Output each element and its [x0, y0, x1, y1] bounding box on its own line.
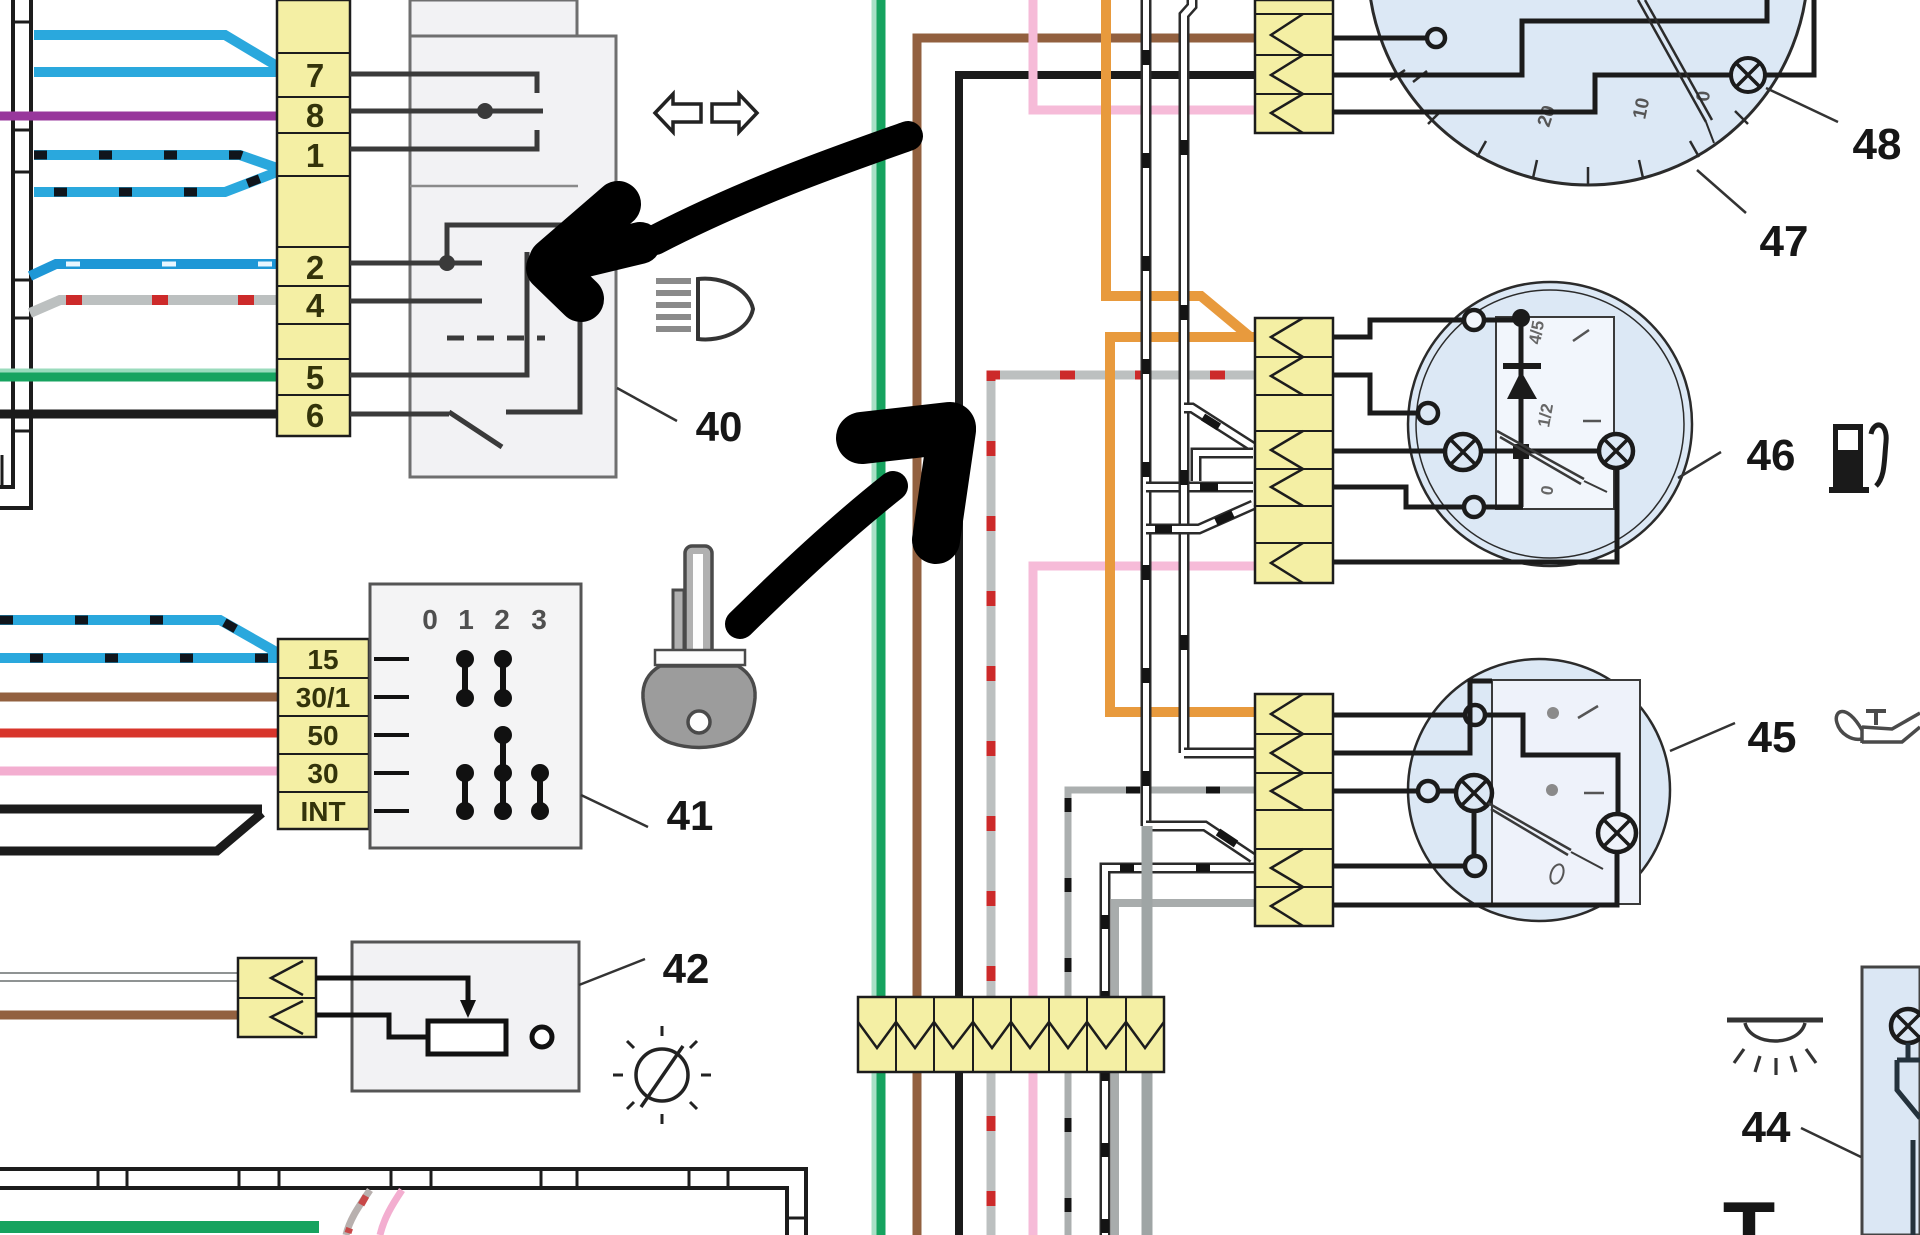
wire brown vertical with top branch to X48 — [917, 38, 1255, 1235]
svg-text:42: 42 — [663, 945, 710, 992]
svg-text:46: 46 — [1747, 431, 1796, 480]
hand-drawn arrow 1 pointing at switch 40 — [549, 136, 908, 299]
svg-text:5: 5 — [306, 359, 324, 396]
wire purple into pin 8 — [0, 112, 277, 121]
wire orange upper run into X46 — [1106, 0, 1249, 336]
leader line 46 — [1678, 452, 1721, 478]
wire pink curved stub below loom — [380, 1190, 402, 1235]
svg-text:4: 4 — [306, 287, 325, 324]
leader line 45 — [1670, 723, 1735, 751]
gauge 46 fuel gauge — [1408, 282, 1692, 566]
leader line 48 — [1766, 88, 1838, 122]
icon headlight low beam — [656, 278, 753, 339]
svg-text:INT: INT — [300, 796, 345, 827]
connector X46 — [1255, 318, 1333, 583]
wire W2 diagonal branch into X46 pin4 — [1184, 408, 1253, 447]
rheostat 42 terminal — [532, 1027, 552, 1047]
unit 44 internal contact — [1897, 1043, 1920, 1235]
rheostat 42 wiper wire with arrow — [316, 978, 476, 1018]
wire black vertical with top branch to X48 — [959, 75, 1255, 1235]
switch 40 contact 5 — [350, 252, 527, 375]
svg-text:41: 41 — [667, 792, 714, 839]
gauge 45 lamp circuit from X45 pin3 — [1333, 775, 1492, 856]
gauge 47/48 speedometer dial — [1368, 0, 1808, 185]
svg-text:0: 0 — [422, 604, 438, 635]
icon fuel pump — [1829, 424, 1886, 493]
wire W1 continuation gray below 826 — [1142, 826, 1153, 1235]
svg-text:2: 2 — [494, 604, 510, 635]
wire cyan-black-dash pair into pin 1 — [34, 155, 277, 192]
switch unit 40 housing — [410, 0, 616, 477]
switch 40 contact 1 — [350, 130, 537, 149]
gauge 45 needle — [1488, 803, 1603, 869]
connector X1 (pins 7 8 1 2 4 5 6) — [277, 0, 350, 436]
lamp in gauge 46 left — [1333, 434, 1599, 470]
svg-text:7: 7 — [306, 57, 324, 94]
ignition switch 41 contacts — [457, 651, 549, 820]
wire outlined W1 vertical — [1141, 0, 1152, 826]
svg-text:15: 15 — [307, 644, 338, 675]
leader line 42 — [579, 959, 645, 985]
ignition switch 41 box — [370, 584, 581, 848]
svg-text:45: 45 — [1748, 713, 1797, 762]
switch 40 contact 6 with lever — [350, 412, 502, 447]
wire outlined W2 vertical — [1184, 0, 1192, 753]
wire W1 branch into X46 pin5 — [1146, 482, 1253, 493]
gauge 45 bottom terminal from X45 pin5 — [1333, 856, 1485, 876]
svg-text:10: 10 — [1629, 96, 1654, 121]
wire cyan pair into pin 7 — [34, 35, 277, 72]
ignition switch 41 pin stubs — [374, 659, 409, 811]
rheostat 42 resistor element — [428, 1021, 506, 1054]
wire loom ladder left edge — [0, 0, 31, 508]
wire black pair into INT — [0, 809, 262, 851]
leader line 44 — [1801, 1128, 1861, 1157]
leader line 41 — [581, 795, 648, 827]
icon panel light dimmer — [613, 1026, 711, 1124]
gauge 45 scale marks — [1548, 706, 1604, 885]
svg-text:T: T — [1723, 1185, 1776, 1235]
wire W2 branch into X45 pin2 — [1184, 748, 1255, 759]
wire gray black-dash to X45 pin3 — [1068, 790, 1255, 1235]
gauge 45 ground from X45 pin6 — [1333, 852, 1617, 905]
svg-text:30: 30 — [307, 758, 338, 789]
leader line 47 — [1697, 170, 1746, 213]
svg-text:48: 48 — [1853, 120, 1902, 169]
gauge 46 scale marks — [1525, 319, 1557, 497]
connector X2 ignition (15 30/1 50 30 INT) — [278, 639, 369, 829]
gauge 46 lamp feed from X46 pin7 — [1333, 466, 1617, 562]
wire pink lower segment to X46 — [1033, 566, 1255, 1235]
icon interior light — [1727, 1020, 1823, 1075]
hand-drawn arrow 2 pointing at gray red-dash wire — [740, 428, 952, 624]
gauge 47 needle — [1638, 0, 1714, 143]
gauge 47 internal circuit from X48 pin2 — [1334, 0, 1767, 75]
gauge 46 sender from X46 pin2 — [1333, 375, 1438, 423]
svg-text:1: 1 — [458, 604, 474, 635]
switch 40 contact 4 — [350, 299, 482, 304]
lamp in gauge 46 right — [1599, 434, 1633, 468]
wire thin white into rheostat connector — [0, 973, 238, 981]
gauge 46 bottom terminal from X46 pin5 — [1333, 487, 1523, 517]
unit 44 box — [1862, 967, 1920, 1235]
icon ignition key — [643, 546, 755, 748]
wire green bottom stub — [0, 1221, 319, 1233]
svg-text:40: 40 — [696, 403, 743, 450]
diode VD in gauge 46 — [1503, 318, 1541, 507]
wire outlined lower fork into X46 pin6 — [1146, 505, 1253, 529]
svg-text:47: 47 — [1760, 217, 1809, 266]
gauge 46 feed from X46 pin1 — [1333, 309, 1530, 337]
wire brown into 30/1 — [0, 693, 278, 702]
wire loom ladder bottom — [0, 1169, 806, 1235]
lamp in unit 44 — [1891, 1009, 1920, 1043]
gauge 45 oil pressure gauge — [1408, 659, 1670, 921]
switch 40 contact 2 with junction — [350, 225, 580, 412]
wire pink into 30 — [0, 767, 278, 776]
svg-text:50: 50 — [307, 720, 338, 751]
svg-text:1: 1 — [306, 137, 324, 174]
rheostat 42 box — [352, 942, 579, 1091]
switch 40 contact 7 — [350, 74, 537, 93]
wire outlined short into X46 pin4b — [1196, 453, 1253, 481]
wire gray-red curved stub below loom — [346, 1190, 370, 1235]
connector X48 — [1255, 0, 1333, 133]
switch 40 mechanical link dashed — [447, 336, 545, 341]
svg-text:2: 2 — [306, 249, 324, 286]
wire blue white-dash into pin 2 — [30, 264, 277, 276]
icon turn signals — [655, 94, 757, 132]
svg-text:6: 6 — [306, 397, 324, 434]
wire black into pin 6 — [0, 410, 277, 419]
connector X45 — [1255, 694, 1333, 926]
wire brown into rheostat connector — [0, 1011, 238, 1020]
gauge 45 feed from X45 pin1 — [1333, 705, 1618, 814]
ignition switch position header 0 1 2 3 — [422, 604, 547, 635]
svg-text:4/5: 4/5 — [1525, 319, 1548, 346]
svg-text:3: 3 — [531, 604, 547, 635]
wire gray to X45 pin6 — [1115, 903, 1255, 1235]
gauge 46 needle — [1497, 431, 1607, 492]
wire green vertical — [874, 0, 881, 1235]
connector X3 rheostat — [238, 958, 316, 1037]
wire gray red-dash vertical with branch to X46 — [991, 375, 1255, 1235]
wire red into 50 — [0, 729, 278, 738]
gauge 47 internal circuit from X48 pin1 — [1334, 29, 1445, 47]
wire cyan-dash pair into ignition 15 — [0, 620, 278, 658]
svg-text:44: 44 — [1742, 1103, 1791, 1152]
svg-text:30/1: 30/1 — [296, 682, 351, 713]
svg-text:1/2: 1/2 — [1534, 402, 1557, 429]
switch 40 contact 8 with movable contact dot — [350, 103, 543, 119]
wire outlined with dashes to X45 pin5 — [1105, 868, 1255, 1235]
leader line 40 — [617, 388, 677, 421]
wire pink top segment to X48 — [1033, 0, 1255, 110]
wire orange branch into X46 and down to X45 — [1110, 337, 1255, 712]
icon oil can — [1836, 711, 1920, 743]
gauge 45 wire from X45 pin2 — [1333, 681, 1492, 753]
gauge 45 lamp right — [1598, 814, 1636, 852]
svg-text:8: 8 — [306, 97, 324, 134]
wire green into pin 5 — [0, 371, 277, 377]
wire gray red-dash into pin 4 — [30, 300, 277, 313]
gauge 47 internal circuit from X48 pin3 with lamp — [1334, 0, 1814, 112]
rheostat 42 lower wire — [316, 1015, 428, 1037]
connector strip X9 bottom — [858, 997, 1164, 1072]
wire W1 lower branch diagonal into X45 pin5 — [1146, 826, 1253, 858]
